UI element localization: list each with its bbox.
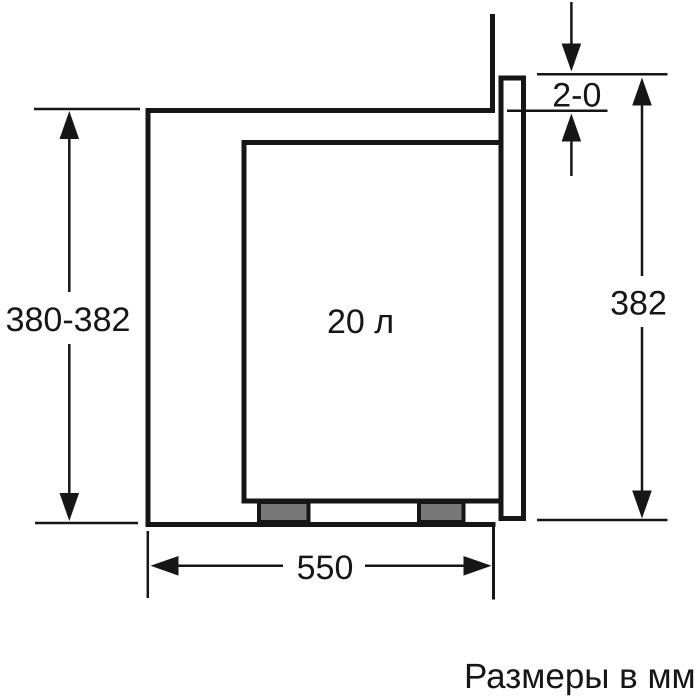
dim 2-0 lower ref line [507, 109, 608, 112]
foot right (dark grey) [419, 502, 464, 522]
microwave body 20 l [244, 143, 501, 502]
dim 2-0 arrow up from below [562, 114, 582, 142]
dim 550 arrow left [151, 556, 179, 576]
dim 380-382 arrow up [60, 111, 80, 139]
dim 2-0 upper ref line [537, 73, 668, 76]
dim 382 arrow up [632, 78, 652, 106]
svg-text:20 л: 20 л [327, 303, 394, 341]
svg-text:Размеры в мм: Размеры в мм [464, 657, 696, 696]
dim 550 right extension line [492, 524, 495, 600]
foot left (dark grey) [259, 502, 309, 522]
dim 550 arrow right [464, 556, 492, 576]
dim 382 arrow down [632, 491, 652, 519]
dim 382 bottom tick [537, 519, 668, 522]
dim 380-382 arrow down [60, 493, 80, 521]
cabinet niche outline (wall top-right, niche top, left, bottom) [148, 14, 496, 525]
dim 380-382 top tick [34, 108, 140, 111]
svg-text:382: 382 [610, 285, 667, 323]
svg-text:550: 550 [297, 549, 354, 587]
svg-text:2-0: 2-0 [552, 77, 601, 115]
dim 2-0 arrow down from top [570, 2, 573, 44]
svg-text:380-382: 380-382 [6, 301, 131, 339]
microwave door panel [501, 78, 524, 519]
dim 380-382 bottom tick [35, 522, 138, 525]
dim 550 left extension line [147, 531, 150, 598]
